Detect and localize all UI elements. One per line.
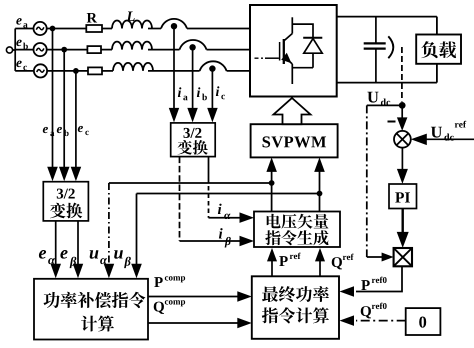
label bianhuan (voltage) bbox=[50, 203, 66, 219]
label P ref bbox=[279, 253, 300, 266]
block zero bbox=[406, 308, 441, 335]
wire u_alpha down bbox=[108, 183, 110, 266]
node current sensor i_c bbox=[209, 65, 215, 71]
node current sensor i_b bbox=[189, 44, 195, 50]
wire phase a source to R bbox=[47, 28, 87, 30]
arrow u_alpha into SVPWM bbox=[266, 157, 277, 172]
arrow u_beta bbox=[131, 264, 142, 279]
IGBT emitter lead bbox=[291, 64, 293, 84]
arrow e_alpha bbox=[51, 264, 62, 279]
block converter bridge bbox=[250, 5, 337, 97]
block PI bbox=[389, 184, 417, 209]
wire i_beta horizontal bbox=[180, 240, 242, 242]
label P ref0 bbox=[361, 277, 386, 290]
wire R to L phase c bbox=[102, 70, 113, 72]
arrow Udc ref bbox=[411, 134, 427, 146]
node phase c voltage tap bbox=[73, 68, 79, 74]
label Q comp bbox=[154, 300, 185, 314]
label SVPWM bbox=[263, 136, 271, 147]
wire cap top lead bbox=[375, 17, 377, 44]
wire sensor to converter phase c bbox=[227, 70, 250, 72]
diode D1 bbox=[304, 39, 322, 54]
label i_alpha bbox=[218, 204, 231, 220]
IGBT collector diagonal bbox=[284, 34, 292, 41]
block 3/2 transform (voltage) bbox=[43, 182, 88, 221]
wire e_c tap down bbox=[75, 71, 77, 169]
label 3/2 (current) bbox=[183, 128, 189, 138]
label e_c bbox=[16, 61, 27, 71]
label Q ref0 bbox=[361, 303, 387, 319]
voltage probe arc bbox=[388, 36, 393, 58]
wire DC- rail bbox=[337, 82, 437, 84]
label Udc ref bbox=[431, 121, 466, 141]
AC source e_b bbox=[34, 43, 47, 56]
arrow u_beta into SVPWM bbox=[314, 157, 325, 172]
label Udc bbox=[367, 92, 390, 106]
AC source e_c bbox=[34, 64, 47, 77]
wire L to sensor phase a bbox=[148, 28, 161, 30]
wire e_b tap down bbox=[63, 50, 65, 169]
inductor L phase c bbox=[113, 63, 153, 71]
inductor L phase b bbox=[112, 42, 152, 50]
label zhiling jisuan (final) bbox=[262, 307, 278, 323]
label minus bbox=[388, 121, 396, 123]
label e_alpha bbox=[39, 250, 55, 264]
arrow e_a into 3/2 bbox=[47, 167, 58, 182]
diode cathode bar bbox=[303, 37, 322, 39]
label fuzai bbox=[421, 41, 437, 58]
arrow e_c into 3/2 bbox=[71, 167, 82, 182]
label e_a tap bbox=[43, 127, 55, 136]
arrow i_c into 3/2 bbox=[207, 108, 218, 123]
wire i_beta down bbox=[179, 157, 181, 241]
label bianhuan (current) bbox=[177, 140, 192, 155]
multiplier box bbox=[394, 248, 412, 266]
resistor R phase a bbox=[86, 25, 102, 32]
wire e_a tap down bbox=[52, 29, 54, 169]
AC source e_a bbox=[34, 22, 47, 35]
wire Udc feedback dashdot bbox=[366, 105, 368, 257]
IGBT gate dash bbox=[255, 57, 264, 59]
label gonglv buchang zhiling bbox=[43, 292, 59, 308]
wire Udc branch left bbox=[367, 104, 402, 106]
wire load top bbox=[436, 17, 438, 35]
label i_beta bbox=[219, 228, 231, 247]
inductor L phase a bbox=[112, 21, 152, 29]
wire PI to multiplier bbox=[402, 209, 404, 235]
wire phase a to source bbox=[15, 28, 33, 30]
wire multiplier out bbox=[356, 266, 402, 291]
wire u_alpha column bbox=[271, 170, 273, 212]
label u_alpha bbox=[90, 250, 107, 264]
wire i_alpha down dashed bbox=[208, 186, 210, 218]
wire load bottom bbox=[436, 64, 438, 83]
arrow i_b into 3/2 bbox=[187, 108, 198, 123]
wire diode to emitter bbox=[292, 67, 313, 69]
wire i_b down bbox=[192, 47, 194, 110]
label R bbox=[87, 13, 97, 22]
label e_c tap bbox=[78, 126, 89, 135]
arrow Q ref bbox=[315, 248, 325, 262]
wire i_c down bbox=[211, 69, 213, 111]
label PI bbox=[395, 192, 404, 202]
resistor R phase c bbox=[88, 67, 102, 74]
label P comp bbox=[154, 276, 185, 287]
wire i_alpha horizontal bbox=[209, 217, 242, 219]
wire summer to PI bbox=[401, 148, 403, 172]
arrow into multiplier from PI bbox=[397, 232, 409, 248]
node Udc junction bbox=[399, 102, 406, 109]
IGBT emitter arrow bbox=[281, 53, 291, 64]
label e_b bbox=[16, 40, 28, 50]
block voltage vector command gen bbox=[254, 212, 340, 248]
wire phase b source to R bbox=[47, 49, 88, 51]
current sensor hump phase a bbox=[161, 19, 187, 29]
label e_a bbox=[16, 18, 27, 28]
wire u_beta down bbox=[136, 194, 138, 267]
node phase b voltage tap bbox=[61, 47, 67, 53]
node current sensor i_a bbox=[171, 23, 177, 29]
label zhiling shengcheng bbox=[265, 230, 280, 245]
node O neutral terminal bbox=[6, 47, 12, 53]
wire e_beta down bbox=[77, 221, 79, 266]
IGBT gate bar bbox=[279, 42, 281, 61]
diode anode lead bbox=[312, 53, 314, 67]
wire phase c source to R bbox=[47, 70, 88, 72]
arrow Q ref0 bbox=[340, 315, 355, 326]
label zuizhong gonglv bbox=[262, 286, 278, 302]
block power compensation command calc bbox=[34, 279, 148, 340]
wire Udc dashed tap bbox=[401, 47, 403, 102]
IGBT body bar bbox=[283, 39, 285, 64]
arrow into summer bbox=[397, 117, 408, 130]
wire P ref up bbox=[271, 260, 273, 277]
wire R to L phase b bbox=[101, 49, 112, 51]
wire e_alpha down bbox=[55, 221, 57, 266]
arrow e_beta bbox=[73, 264, 83, 279]
wire Q ref0 bbox=[356, 320, 406, 322]
wire Udc ref bbox=[425, 138, 474, 140]
wire Udc to multiplier bbox=[367, 256, 383, 258]
wire L to sensor phase b bbox=[148, 49, 180, 51]
IGBT collector lead bbox=[291, 17, 293, 33]
label L bbox=[126, 12, 134, 21]
wire Q ref up bbox=[319, 260, 321, 277]
wire u_alpha horizontal bbox=[109, 182, 272, 184]
arrow Udc into multiplier bbox=[382, 253, 394, 262]
node u_beta junction bbox=[317, 191, 323, 197]
node u_alpha junction bbox=[269, 180, 275, 186]
summer circle bbox=[394, 131, 411, 148]
current sensor hump phase c bbox=[200, 61, 227, 71]
label dianya shiliang bbox=[267, 214, 281, 229]
wire R to L phase a bbox=[102, 28, 112, 30]
label 3/2 (voltage) bbox=[57, 189, 63, 199]
wire i_a down bbox=[173, 26, 175, 110]
capacitor C plate1 bbox=[364, 42, 386, 44]
label e_b tap bbox=[57, 127, 69, 136]
wire neutral link bbox=[13, 49, 16, 51]
wire collector to diode bbox=[292, 24, 313, 38]
block SVPWM bbox=[251, 124, 338, 157]
node phase a voltage tap bbox=[50, 26, 56, 32]
IGBT gate lead bbox=[265, 57, 279, 59]
arrow i_a into 3/2 bbox=[169, 108, 179, 123]
label e_beta bbox=[60, 250, 76, 268]
block 3/2 transform (current) bbox=[171, 123, 216, 157]
wire u_beta column bbox=[319, 170, 321, 212]
wire sensor to converter phase b bbox=[207, 49, 251, 51]
label Q ref bbox=[332, 254, 354, 270]
hollow arrow SVPWM to converter bbox=[274, 98, 311, 124]
wire Q comp bbox=[148, 322, 240, 324]
wire u_beta horizontal bbox=[137, 193, 320, 195]
arrow i_alpha bbox=[240, 212, 255, 223]
label i_a bbox=[178, 87, 188, 100]
wire i_alpha down solid bbox=[208, 157, 210, 183]
wire cap bottom lead bbox=[375, 49, 377, 83]
label i_c bbox=[216, 86, 225, 99]
block final power command calc bbox=[252, 276, 339, 339]
arrow P comp bbox=[237, 291, 252, 302]
arrow u_alpha bbox=[104, 264, 115, 279]
wire phase c to source bbox=[15, 70, 34, 72]
resistor R phase b bbox=[87, 46, 101, 53]
label i_b bbox=[197, 87, 207, 100]
wire P comp bbox=[148, 296, 240, 298]
IGBT emitter diagonal bbox=[284, 57, 292, 65]
wire DC+ rail bbox=[337, 16, 437, 18]
label jisuan (comp) bbox=[81, 316, 97, 332]
wire L to sensor phase c bbox=[148, 70, 200, 72]
block load bbox=[416, 35, 461, 64]
arrow e_b into 3/2 bbox=[59, 167, 70, 182]
wire phase b to source bbox=[15, 49, 33, 51]
wire neutral bus bbox=[14, 29, 16, 71]
arrow into PI bbox=[397, 169, 408, 184]
arrow i_beta bbox=[240, 236, 255, 246]
wire sensor to converter phase a bbox=[187, 28, 250, 30]
arrow Q comp bbox=[237, 318, 252, 328]
arrow P ref0 bbox=[340, 286, 355, 297]
capacitor C plate2 bbox=[364, 47, 386, 49]
label 0 bbox=[419, 317, 426, 328]
label u_beta bbox=[114, 250, 131, 268]
current sensor hump phase b bbox=[180, 40, 207, 50]
arrow P ref bbox=[267, 248, 277, 262]
wire Udc down to summer bbox=[401, 105, 403, 120]
